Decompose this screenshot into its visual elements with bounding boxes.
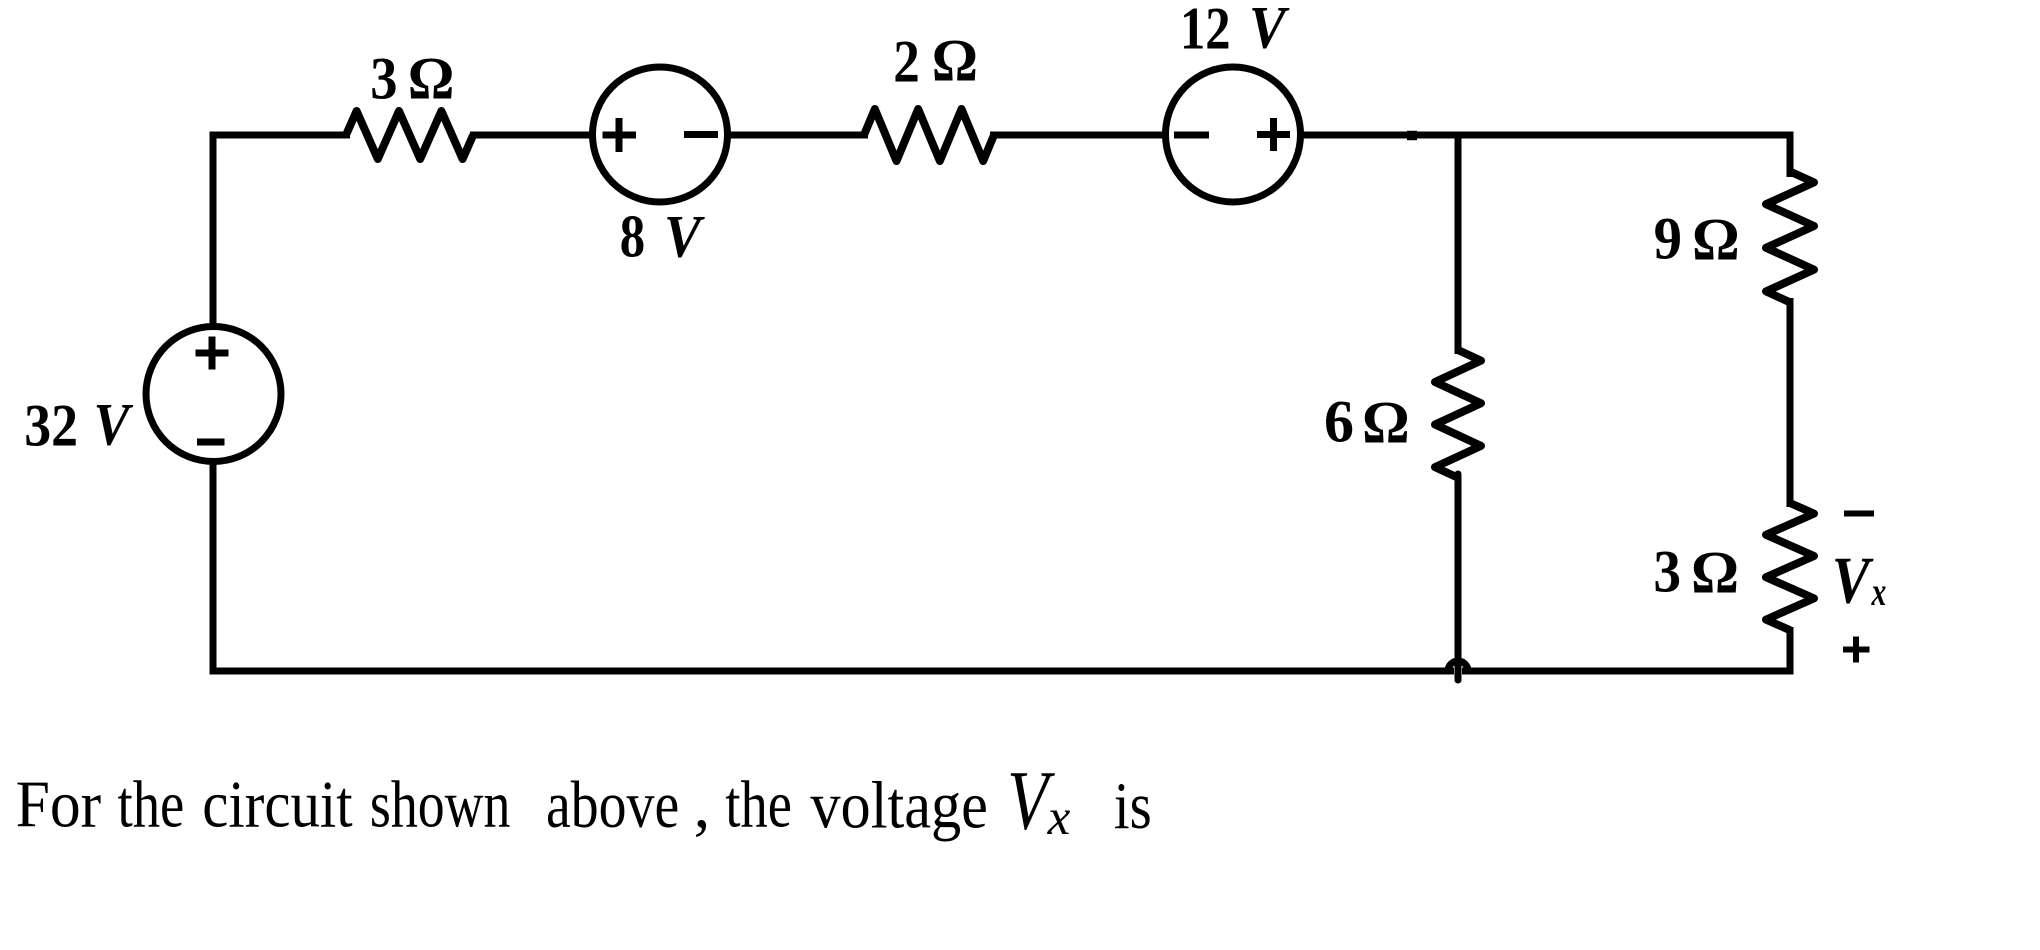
svg-text:V: V bbox=[94, 392, 134, 458]
svg-text:2: 2 bbox=[893, 30, 920, 96]
V1 plus sign bbox=[196, 337, 229, 370]
wire: 9Ω to 3Ω on right branch bbox=[1787, 298, 1794, 507]
voltage source V1 32V (left branch circle) bbox=[146, 327, 281, 462]
svg-text:3: 3 bbox=[1653, 540, 1681, 605]
wire hop: bottom wire arcs over 6Ω branch bbox=[1448, 661, 1468, 671]
svg-text:3: 3 bbox=[370, 46, 397, 112]
svg-text:circuit: circuit bbox=[202, 767, 353, 841]
svg-text:Ω: Ω bbox=[1691, 540, 1739, 606]
svg-text:32: 32 bbox=[24, 393, 78, 459]
resistor R1 3Ω (top left, horizontal zigzag) bbox=[346, 111, 473, 159]
wire: 3Ω down to bottom-right corner and left to hop bbox=[1462, 627, 1790, 671]
svg-text:above: above bbox=[546, 768, 679, 842]
Vx polarity minus mark bbox=[1844, 511, 1874, 517]
wire: top-left from node A to resistor 3Ω bbox=[213, 132, 350, 139]
svg-text:12: 12 bbox=[1180, 0, 1231, 63]
wire: middle branch from top wire down to 6Ω bbox=[1455, 132, 1462, 355]
svg-text:Ω: Ω bbox=[408, 45, 455, 112]
svg-text:6: 6 bbox=[1324, 388, 1354, 454]
wire: 2Ω to top-right corner and down to 9Ω (passes under 12V source) bbox=[990, 135, 1790, 177]
wire: 6Ω down, crossing under the bottom-wire hop, round end bbox=[1455, 474, 1462, 680]
voltage source V2 8V (top, between 3Ω and 2Ω) bbox=[593, 67, 728, 202]
V3 minus sign (left) bbox=[1174, 132, 1209, 139]
resistor R3 9Ω (right branch upper, vertical zigzag) bbox=[1766, 172, 1814, 303]
resistor R2 2Ω (top middle, horizontal zigzag) bbox=[864, 109, 994, 161]
svg-text:the: the bbox=[118, 769, 185, 842]
svg-text:voltage: voltage bbox=[810, 768, 987, 842]
svg-text:V: V bbox=[664, 204, 705, 270]
svg-text:V: V bbox=[1832, 545, 1874, 618]
svg-text:V: V bbox=[1249, 0, 1290, 61]
wire joint overlap on top wire bbox=[1407, 131, 1417, 141]
svg-text:Ω: Ω bbox=[932, 28, 978, 94]
svg-text:the: the bbox=[725, 768, 791, 841]
V3 plus sign (right) bbox=[1257, 118, 1290, 151]
svg-text:x: x bbox=[1871, 570, 1887, 614]
svg-text:shown: shown bbox=[370, 768, 510, 842]
V2 minus sign (right) bbox=[684, 131, 718, 138]
svg-text:x: x bbox=[1047, 790, 1071, 846]
svg-text:9: 9 bbox=[1654, 205, 1682, 272]
svg-text:For: For bbox=[16, 767, 102, 841]
resistor R5 6Ω (middle branch, vertical zigzag) bbox=[1435, 350, 1481, 478]
svg-text:Ω: Ω bbox=[1362, 389, 1410, 455]
wire: bottom wire from hop to bottom-left corner and up left branch to node A bbox=[213, 132, 1454, 672]
resistor R4 3Ω (right branch lower, Vx, vertical zigzag) bbox=[1766, 503, 1814, 630]
V1 minus sign bbox=[197, 439, 225, 446]
svg-text:8: 8 bbox=[620, 204, 645, 271]
V2 plus sign (left) bbox=[603, 118, 637, 152]
svg-text:is: is bbox=[1114, 770, 1152, 843]
svg-text:Ω: Ω bbox=[1692, 206, 1740, 272]
wire: 3Ω to 2Ω (passes under 8V source) bbox=[470, 132, 868, 139]
svg-text:,: , bbox=[694, 769, 711, 842]
Vx polarity plus mark bbox=[1843, 637, 1870, 663]
voltage source V3 12V (top, right of 2Ω) bbox=[1166, 67, 1301, 202]
